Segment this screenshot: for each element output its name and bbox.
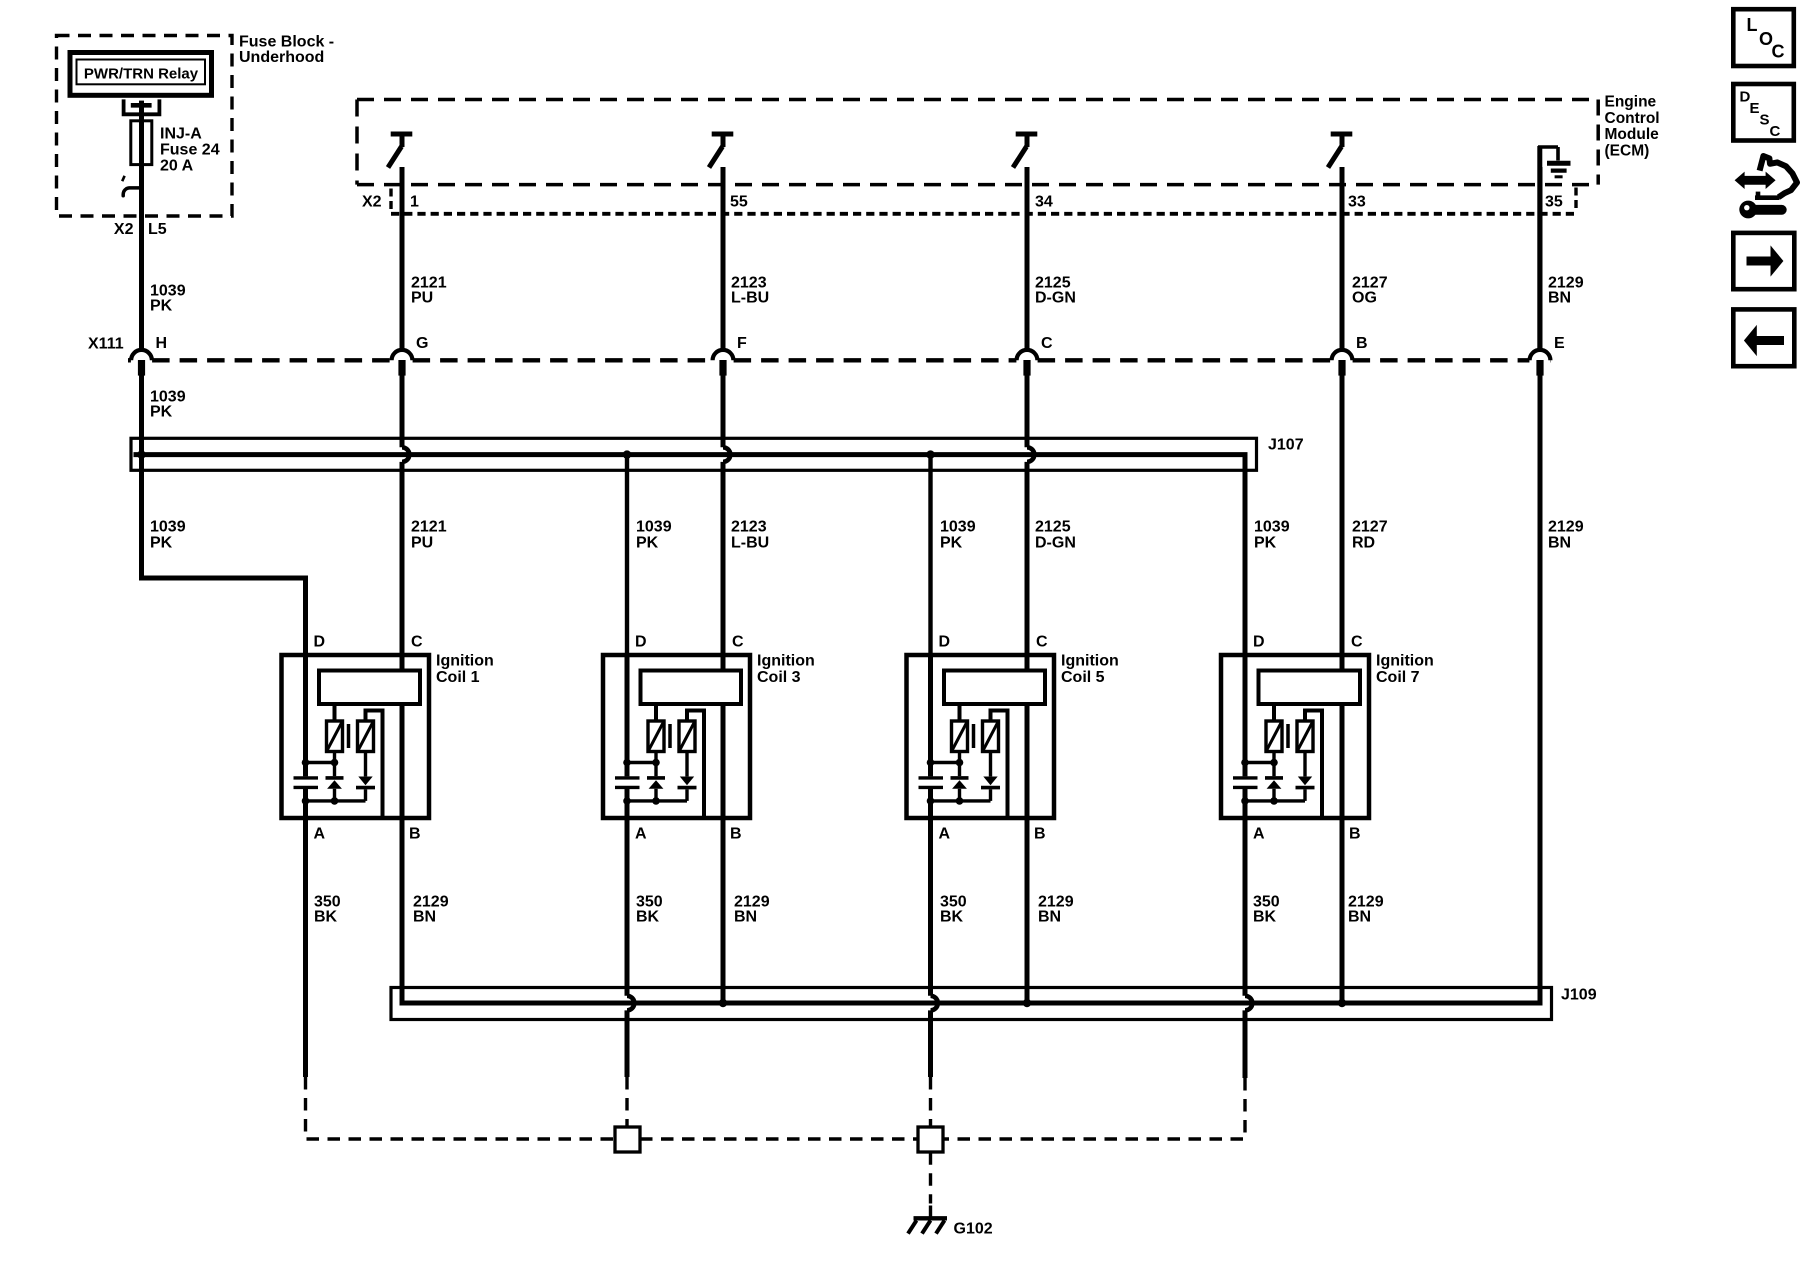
coil 7 junction dots bottom rail [1241, 797, 1249, 805]
coil 1 primary low wire [333, 752, 336, 777]
separator dashes left [389, 189, 392, 211]
wire 2127 X111 to coil 7 C [1340, 374, 1345, 657]
wire drop J107 to coil 3 D [625, 455, 629, 657]
svg-text:D: D [635, 634, 647, 651]
wire fuse column upper [139, 101, 144, 122]
svg-text:H: H [156, 335, 168, 352]
wire 350 BK coil 7 hop over J109 [1245, 996, 1252, 1011]
junction dot J107 coil 5 drop [926, 450, 934, 458]
svg-text:2121: 2121 [411, 519, 447, 536]
coil 5 bar to primary wire [958, 704, 962, 722]
svg-text:X2: X2 [114, 221, 134, 238]
ignition coil 3 box [603, 655, 750, 818]
X111 terminal arc pin E [1530, 350, 1551, 360]
coil 5 junction dots top rail [927, 759, 935, 767]
X111 terminal arc pin C [1017, 350, 1038, 360]
wire H X111 to J107 [139, 374, 144, 455]
svg-text:PK: PK [150, 535, 173, 552]
coil 5 diode 2 [983, 777, 997, 786]
svg-text:Coil 3: Coil 3 [757, 669, 801, 686]
svg-text:C: C [1041, 335, 1053, 352]
coil 5 module bar [944, 671, 1045, 705]
icon box DESC [1733, 84, 1794, 141]
wire 350 BK coil 5 hop over J109 [931, 996, 938, 1011]
svg-text:PK: PK [150, 404, 173, 421]
svg-text:BK: BK [636, 909, 660, 926]
svg-text:A: A [1253, 826, 1265, 843]
splice pack J107 box [131, 438, 1257, 470]
svg-text:1: 1 [410, 194, 419, 211]
coil 1 primary winding [327, 721, 343, 752]
svg-text:BN: BN [1548, 290, 1571, 307]
svg-text:BN: BN [413, 909, 436, 926]
svg-text:PWR/TRN Relay: PWR/TRN Relay [84, 66, 199, 83]
svg-text:Underhood: Underhood [239, 49, 324, 66]
coil 1 bottom rail [306, 799, 366, 802]
ECM driver switch 2 [712, 132, 734, 137]
svg-text:Ignition: Ignition [1376, 653, 1434, 670]
svg-text:55: 55 [730, 194, 748, 211]
svg-text:C: C [732, 634, 744, 651]
junction dot J109 coil 7 B [1338, 999, 1346, 1007]
svg-text:Control: Control [1605, 110, 1660, 127]
svg-text:B: B [1356, 335, 1368, 352]
svg-text:INJ-A: INJ-A [160, 126, 202, 143]
coil 1 diode 2 wire [364, 752, 367, 777]
coil 5 secondary output to tower [991, 711, 1008, 817]
coil 3 core [668, 724, 672, 748]
coil 7 core [1286, 724, 1290, 748]
coil 5 capacitor [919, 776, 944, 779]
coil 7 primary winding [1266, 721, 1282, 752]
coil 1 junction dots bottom rail [302, 797, 310, 805]
svg-text:RD: RD [1352, 535, 1375, 552]
svg-text:B: B [409, 826, 421, 843]
wire 2125 D-GN upper segment [1025, 167, 1030, 352]
svg-text:G102: G102 [954, 1221, 993, 1238]
coil 7 capacitor [1233, 776, 1258, 779]
coil 5 primary winding [952, 721, 968, 752]
ECM internal ground symbol (pin 35) [1537, 146, 1542, 168]
separator dashes right of pin 35 [1574, 188, 1577, 213]
coil 3 D/A wire [625, 653, 630, 776]
svg-text:Ignition: Ignition [1061, 653, 1119, 670]
ground G102 symbol [929, 1206, 932, 1218]
J107 bus conductor [134, 455, 1246, 657]
ground dashed drop to G102 [929, 1152, 932, 1203]
coil 1 capacitor [294, 776, 319, 779]
coil 1 zener diode [327, 780, 342, 789]
coil 5 D/A wire [928, 653, 933, 776]
svg-text:1039: 1039 [150, 519, 186, 536]
svg-text:G: G [416, 335, 428, 352]
coil 7 diode 2 [1298, 777, 1312, 786]
coil 3 primary low wire [654, 752, 657, 777]
icon box forward arrow [1733, 233, 1794, 289]
coil 5 primary low wire [958, 752, 961, 777]
coil 5 junction dots bottom rail [927, 797, 935, 805]
coil 5 secondary winding [983, 721, 999, 752]
coil 3 zener diode [649, 780, 664, 789]
svg-text:2125: 2125 [1035, 519, 1071, 536]
svg-text:Fuse 24: Fuse 24 [160, 142, 220, 159]
svg-text:(ECM): (ECM) [1605, 142, 1650, 159]
coil 3 diode 2 wire [685, 752, 688, 777]
svg-text:A: A [939, 826, 951, 843]
svg-text:1039: 1039 [940, 519, 976, 536]
coil 5 C/B wire [1025, 653, 1030, 1003]
wire 2129 riser in ECM [1537, 168, 1542, 352]
wire 2129 X111 to J109 [1538, 374, 1543, 1003]
svg-text:BN: BN [1038, 909, 1061, 926]
svg-text:D: D [939, 634, 951, 651]
coil 1 secondary winding [358, 721, 374, 752]
ground dashed drop coil 5 [929, 1077, 932, 1127]
coil 1 module bar [319, 671, 420, 705]
svg-text:B: B [1349, 826, 1361, 843]
coil 7 top rail [1245, 761, 1274, 764]
svg-text:A: A [314, 826, 326, 843]
junction dot J109 coil 3 B [719, 999, 727, 1007]
svg-text:PK: PK [940, 535, 963, 552]
ignition coil 7 box [1221, 655, 1369, 818]
coil 3 primary winding [648, 721, 664, 752]
svg-text:D: D [1253, 634, 1265, 651]
coil 7 diode 2 wire [1303, 752, 1306, 777]
ECM driver switch 4 [1331, 132, 1353, 137]
splice pack J109 box [391, 988, 1552, 1020]
coil 3 secondary output to tower [687, 711, 704, 817]
coil 3 bottom rail [627, 799, 687, 802]
splice square S1 [615, 1127, 640, 1152]
svg-text:C: C [411, 634, 423, 651]
wire 2121 crossing J107 with hop [400, 374, 405, 447]
wire 2125 crossing J107 with hop [1025, 374, 1030, 447]
svg-text:1039: 1039 [1254, 519, 1290, 536]
ECM dashed box [357, 98, 1598, 102]
coil 5 bottom rail [931, 799, 991, 802]
wire 2123 L-BU upper segment [721, 167, 726, 352]
splice square S2 [918, 1127, 943, 1152]
ECM driver switch 3 [1016, 132, 1038, 137]
svg-text:Coil 5: Coil 5 [1061, 669, 1105, 686]
wire 2121 PU upper segment [400, 167, 405, 352]
coil 1 top rail [306, 761, 335, 764]
relay PWR/TRN Relay box [70, 53, 212, 96]
wire 2129 BN upper segment [1538, 167, 1543, 352]
coil 1 D/A wire [303, 653, 308, 776]
ground dashed run middle [640, 1137, 918, 1140]
coil 7 bar to primary wire [1272, 704, 1276, 722]
wire 1039 PK elbow to coil 1 D [142, 455, 306, 657]
coil 5 core [972, 724, 976, 748]
svg-text:20 A: 20 A [160, 158, 194, 175]
wire through fuse [139, 122, 144, 165]
svg-text:S: S [1760, 112, 1770, 129]
X111 dashed line [128, 358, 131, 362]
J109 bus conductor [402, 960, 1540, 1003]
coil 3 diode 2 [680, 777, 694, 786]
svg-text:BN: BN [1348, 909, 1371, 926]
X111 pin stub B [1338, 360, 1345, 376]
svg-text:2123: 2123 [731, 519, 767, 536]
junction dot J107 at 1039 PK feed [137, 450, 145, 458]
svg-text:BK: BK [940, 909, 964, 926]
coil 7 bottom rail [1245, 799, 1305, 802]
svg-text:PK: PK [150, 298, 173, 315]
icon box LOC [1733, 9, 1794, 66]
ignition coil 1 box [282, 655, 430, 818]
svg-text:Coil 7: Coil 7 [1376, 669, 1420, 686]
coil 7 primary low wire [1272, 752, 1275, 777]
svg-text:Ignition: Ignition [757, 653, 815, 670]
svg-text:J107: J107 [1268, 437, 1304, 454]
coil 3 bar to primary wire [654, 704, 658, 722]
coil 3 module bar [641, 671, 742, 705]
svg-text:BK: BK [1253, 909, 1277, 926]
coil 7 secondary winding [1297, 721, 1313, 752]
X111 pin stub G [398, 360, 405, 376]
coil 1 C/B wire [400, 653, 405, 1003]
coil 5 zener diode cathode bar [951, 776, 969, 780]
svg-text:C: C [1772, 42, 1785, 62]
svg-text:2127: 2127 [1352, 519, 1388, 536]
X111 pin stub H [138, 360, 145, 376]
svg-text:PK: PK [636, 535, 659, 552]
coil 3 junction dots bottom rail [623, 797, 631, 805]
svg-text:Ignition: Ignition [436, 653, 494, 670]
svg-text:PU: PU [411, 290, 433, 307]
coil 3 C/B wire [721, 653, 726, 1003]
icon arrows navigation glyph [1735, 172, 1776, 189]
coil 1 secondary output to tower [366, 711, 383, 817]
svg-text:L: L [1747, 15, 1758, 35]
X111 pin stub E [1536, 360, 1543, 376]
ignition coil 5 box [907, 655, 1055, 818]
coil 7 zener diode cathode bar [1265, 776, 1283, 780]
svg-text:D: D [314, 634, 326, 651]
coil 5 top rail [931, 761, 960, 764]
svg-text:PU: PU [411, 535, 433, 552]
X111 terminal arc pin B [1332, 350, 1353, 360]
svg-text:33: 33 [1348, 194, 1366, 211]
svg-text:A: A [635, 826, 647, 843]
ground dashed drop coil 3 [625, 1077, 628, 1127]
svg-text:Engine: Engine [1605, 94, 1657, 111]
coil 3 junction dots top rail [623, 759, 631, 767]
in-line connector hook [123, 188, 141, 196]
ECM connector dotted line [391, 212, 1576, 216]
coil 1 core [347, 724, 351, 748]
svg-text:F: F [737, 335, 747, 352]
coil 5 diode 2 wire [989, 752, 992, 777]
svg-text:L5: L5 [148, 221, 167, 238]
ground dashed run coil 7 [943, 1078, 1245, 1139]
coil 1 junction dots top rail [302, 759, 310, 767]
svg-text:X2: X2 [362, 194, 382, 211]
coil 3 zener diode cathode bar [647, 776, 665, 780]
coil 1 zener diode cathode bar [326, 776, 344, 780]
coil 7 module bar [1259, 671, 1361, 705]
X111 terminal arc pin F [713, 350, 734, 360]
svg-text:BN: BN [734, 909, 757, 926]
wire 350 BK coil 3 hop over J109 [627, 996, 634, 1011]
svg-text:E: E [1750, 100, 1760, 117]
svg-text:Module: Module [1605, 126, 1660, 143]
fuse block - underhood dashed box [57, 36, 233, 217]
svg-text:1039: 1039 [636, 519, 672, 536]
svg-text:C: C [1036, 634, 1048, 651]
junction dot J107 coil 3 drop [623, 450, 631, 458]
svg-text:Fuse Block -: Fuse Block - [239, 34, 334, 51]
wire drop J107 to coil 5 D [928, 455, 932, 657]
svg-text:E: E [1554, 335, 1565, 352]
coil 1 bar to primary wire [333, 704, 337, 722]
svg-text:B: B [1034, 826, 1046, 843]
svg-text:35: 35 [1545, 194, 1563, 211]
X111 terminal arc pin H [131, 350, 152, 360]
coil 3 secondary winding [679, 721, 695, 752]
svg-text:B: B [730, 826, 742, 843]
ECM driver switch 1 [391, 132, 413, 137]
coil 7 zener diode [1267, 780, 1282, 789]
svg-text:Coil 1: Coil 1 [436, 669, 480, 686]
svg-text:X111: X111 [88, 336, 124, 353]
coil 3 top rail [627, 761, 656, 764]
icon box back arrow [1733, 309, 1794, 366]
coil 5 zener diode [952, 780, 967, 789]
svg-text:OG: OG [1352, 290, 1377, 307]
X111 pin stub C [1023, 360, 1030, 376]
svg-text:34: 34 [1035, 194, 1053, 211]
ground dashed run coil 1 [306, 1077, 616, 1139]
svg-text:J109: J109 [1561, 987, 1597, 1004]
svg-text:D-GN: D-GN [1035, 535, 1076, 552]
svg-text:BK: BK [314, 909, 338, 926]
X111 pin stub F [719, 360, 726, 376]
coil 7 C/B wire [1340, 653, 1345, 1003]
coil 7 D/A wire [1243, 653, 1248, 776]
junction dot J109 coil 5 B [1023, 999, 1031, 1007]
relay contact bracket [124, 99, 160, 114]
coil 7 secondary output to tower [1305, 711, 1322, 817]
coil 3 capacitor [615, 776, 640, 779]
svg-text:PK: PK [1254, 535, 1277, 552]
wire 2127 OG upper segment [1340, 167, 1345, 352]
wire below fuse [139, 165, 144, 352]
relay plunger contact [131, 103, 152, 108]
coil 1 diode 2 [358, 777, 372, 786]
svg-text:BN: BN [1548, 535, 1571, 552]
fuse INJ-A Fuse 24 20 A [131, 121, 152, 165]
svg-text:C: C [1770, 123, 1781, 140]
svg-text:L-BU: L-BU [731, 290, 769, 307]
X111 terminal arc pin G [392, 350, 413, 360]
svg-text:D-GN: D-GN [1035, 290, 1076, 307]
wire 2123 crossing J107 with hop [721, 374, 726, 447]
svg-text:2129: 2129 [1548, 519, 1584, 536]
svg-text:L-BU: L-BU [731, 535, 769, 552]
coil 7 junction dots top rail [1241, 759, 1249, 767]
svg-text:C: C [1351, 634, 1363, 651]
